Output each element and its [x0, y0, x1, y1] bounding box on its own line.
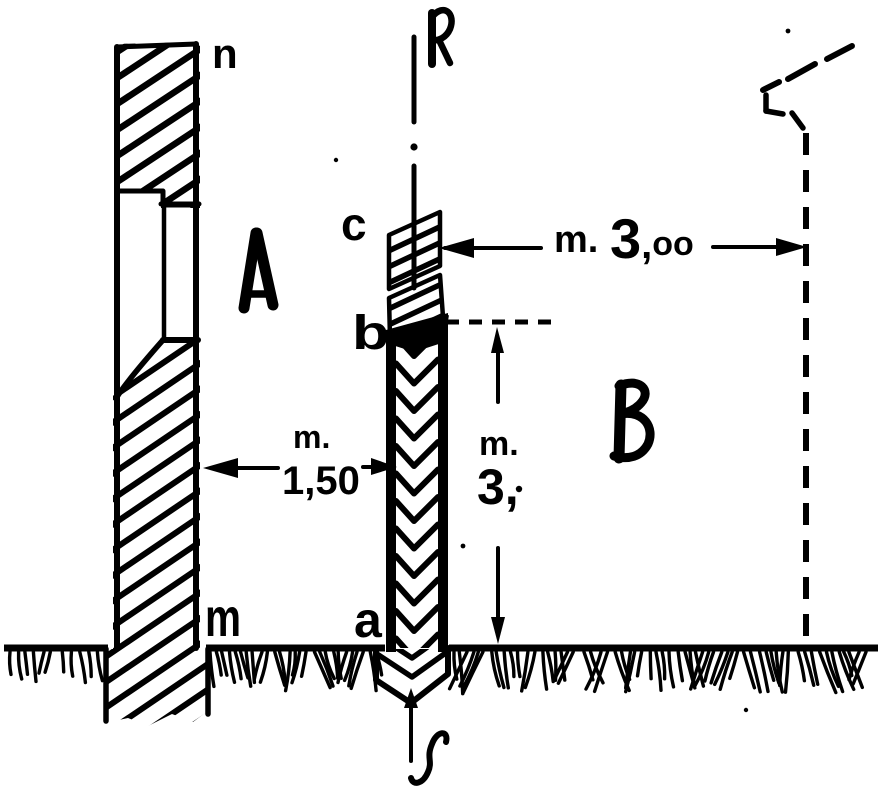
dimension 3,00 left arrow — [439, 238, 541, 258]
dimension 1,50 left arrow — [203, 458, 278, 478]
svg-text:m: m — [205, 588, 241, 648]
wall A recess step line — [161, 202, 199, 207]
label R — [432, 10, 452, 64]
wall A lower block diagonal edge — [117, 340, 163, 397]
wall A inner recess line — [162, 203, 167, 338]
wall A right edge — [193, 44, 199, 648]
pole right edge — [438, 315, 448, 652]
wall A top block hatching — [108, 0, 208, 292]
label b — [352, 305, 390, 359]
stray ink specks — [334, 29, 791, 713]
svg-text:c: c — [341, 198, 367, 250]
svg-text:m.: m. — [479, 425, 519, 463]
wall A top block outline — [117, 44, 196, 205]
dimension m.3 upper arrow (up) — [491, 327, 504, 402]
dimension 1,50 text — [282, 419, 360, 503]
wall A foundation left edge — [103, 649, 109, 721]
dimension 1,50 right arrow — [363, 458, 397, 475]
svg-text:m.: m. — [554, 219, 598, 261]
dimension 3,00 right arrow — [713, 238, 807, 256]
svg-text:3,oo: 3,oo — [610, 207, 694, 270]
building B dashed wall line — [803, 133, 809, 645]
building B dashed eave — [763, 46, 852, 128]
svg-text:a: a — [354, 592, 383, 648]
dimension m.3 text — [477, 425, 522, 515]
label B — [614, 383, 650, 458]
pole upper section outline (c to b) — [389, 212, 443, 338]
pole chevron hatching — [396, 332, 438, 659]
label a — [354, 592, 383, 648]
ground line — [4, 645, 878, 652]
label A — [244, 233, 273, 308]
wall A lower block hatching — [98, 276, 216, 790]
dashed level line at b — [424, 315, 557, 333]
label n — [212, 30, 238, 77]
pole cap at b — [386, 313, 448, 352]
label S (integral) — [411, 733, 446, 783]
centerline R (dash-dot) — [410, 37, 417, 288]
svg-text:n: n — [212, 30, 238, 77]
svg-text:3,: 3, — [477, 459, 519, 515]
dimension m.3 lower arrow (down) — [491, 548, 505, 644]
pole foundation chevron hatching — [377, 633, 447, 677]
wall A lower block top edge — [163, 337, 198, 343]
pole foundation outline — [376, 648, 448, 703]
label m — [205, 588, 241, 648]
ground grass hatching — [10, 652, 866, 694]
wall A left edge — [114, 47, 120, 648]
thrust arrow S below pole — [404, 688, 418, 761]
wall A foundation right edge — [205, 649, 211, 714]
svg-text:1,50: 1,50 — [282, 459, 360, 503]
svg-text:b: b — [352, 305, 390, 359]
label c — [341, 198, 367, 250]
pole upper section hatching — [382, 223, 448, 286]
svg-text:m.: m. — [293, 419, 330, 455]
dimension 3,00 text — [554, 207, 694, 270]
pole left edge — [386, 332, 396, 652]
